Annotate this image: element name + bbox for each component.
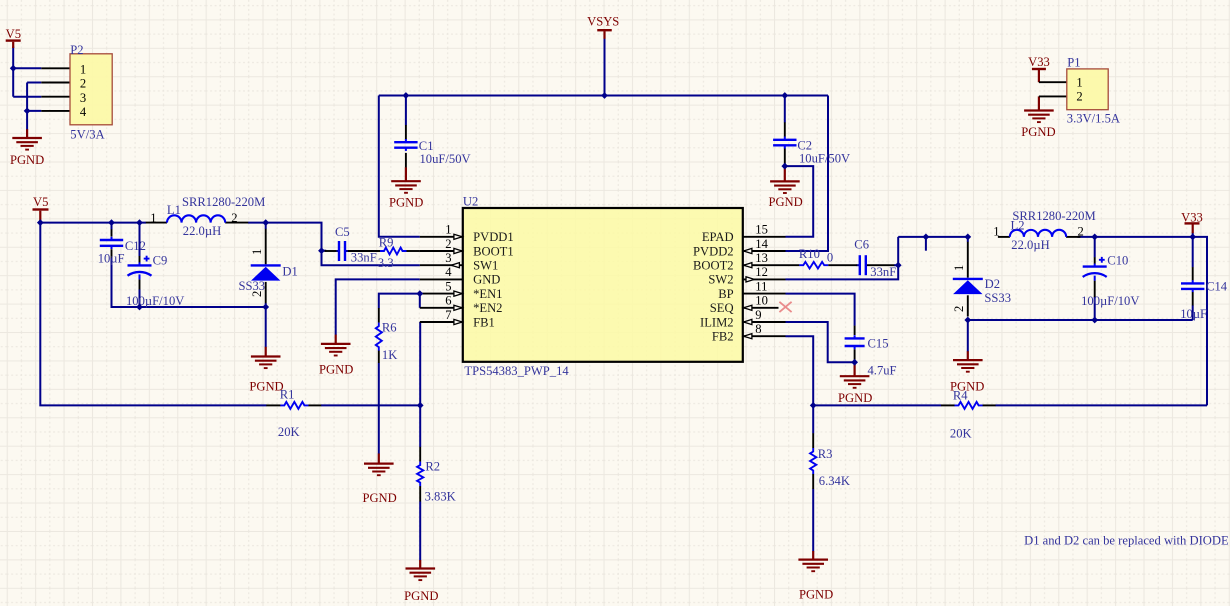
wire BP to C15 (786, 294, 855, 363)
svg-text:BP: BP (718, 287, 733, 301)
svg-text:4: 4 (80, 105, 87, 119)
svg-text:C5: C5 (335, 225, 350, 239)
wire FB1 feedback node (419, 322, 421, 560)
svg-text:10uF/50V: 10uF/50V (420, 152, 471, 166)
svg-text:P1: P1 (1067, 55, 1080, 69)
capacitor C2 (773, 137, 850, 166)
svg-text:C6: C6 (854, 238, 869, 252)
ground PGND below C15 (838, 376, 872, 405)
wire BOOT2 R10 C6 (857, 264, 899, 266)
ground PGND below R2 (404, 569, 438, 604)
ground PGND below D2 (950, 360, 984, 394)
svg-text:D1: D1 (282, 265, 297, 279)
wire FB2 node through R4 to V33, R3 down (813, 405, 1207, 551)
svg-text:SRR1280-220M: SRR1280-220M (182, 195, 265, 209)
wire P2 pins 1 3 to V5 (13, 47, 41, 97)
capacitor C15 (845, 335, 897, 377)
ground PGND below P2 (10, 138, 44, 167)
wire right output bottom rail (968, 297, 1193, 352)
power port V33 at right rail (1181, 210, 1203, 224)
resistor R9 (378, 235, 407, 270)
svg-text:33nF: 33nF (870, 265, 896, 279)
capacitor C12 (98, 237, 146, 265)
pin direction arrows U2 (451, 234, 754, 339)
svg-text:C10: C10 (1107, 254, 1128, 268)
svg-text:V33: V33 (1028, 55, 1050, 69)
svg-text:FB1: FB1 (473, 315, 495, 329)
svg-text:PGND: PGND (362, 491, 396, 505)
svg-text:PGND: PGND (319, 363, 353, 377)
svg-text:5V/3A: 5V/3A (70, 127, 104, 141)
resistor R10 (799, 247, 833, 268)
svg-text:11: 11 (755, 279, 767, 293)
svg-text:SS33: SS33 (984, 291, 1011, 305)
inductor L2 (993, 209, 1095, 252)
svg-text:20K: 20K (278, 425, 300, 439)
svg-text:10uF/50V: 10uF/50V (799, 152, 850, 166)
svg-text:13: 13 (755, 251, 768, 265)
svg-text:0: 0 (827, 251, 833, 265)
ground PGND below R3 (798, 560, 833, 602)
svg-text:PVDD1: PVDD1 (473, 230, 514, 244)
wire VSYS top bus (379, 38, 828, 251)
svg-text:3: 3 (445, 251, 451, 265)
svg-text:5: 5 (445, 279, 451, 293)
svg-text:6.34K: 6.34K (819, 474, 850, 488)
no-connect X on SEQ pin 10 (779, 302, 791, 312)
svg-text:SRR1280-220M: SRR1280-220M (1012, 209, 1095, 223)
svg-text:TPS54383_PWP_14: TPS54383_PWP_14 (464, 364, 569, 378)
svg-text:C14: C14 (1206, 280, 1228, 294)
wire V5 output node L1 row (40, 220, 321, 256)
capacitor C10 polarized (1081, 254, 1139, 309)
resistor R1 (278, 388, 308, 439)
svg-text:PGND: PGND (950, 380, 984, 394)
svg-text:2: 2 (952, 306, 966, 312)
capacitor C1 (394, 139, 470, 166)
svg-text:SW1: SW1 (473, 259, 498, 273)
svg-text:33nF: 33nF (351, 251, 377, 265)
svg-text:3: 3 (80, 91, 86, 105)
svg-text:1: 1 (445, 223, 451, 237)
ground PGND below C2 (768, 181, 802, 209)
IC U2 TPS54383_PWP_14 (445, 194, 768, 378)
svg-text:PGND: PGND (10, 153, 44, 167)
svg-text:PGND: PGND (1021, 125, 1055, 139)
power port V5 at P2 (6, 27, 21, 41)
svg-text:100µF/10V: 100µF/10V (126, 294, 184, 308)
svg-text:PGND: PGND (768, 195, 802, 209)
svg-text:15: 15 (755, 223, 768, 237)
wire V33 output node L2 row (1077, 233, 1207, 406)
svg-text:4.7uF: 4.7uF (868, 364, 897, 378)
svg-text:22.0µH: 22.0µH (183, 224, 221, 238)
svg-text:2: 2 (231, 211, 237, 225)
svg-text:6: 6 (445, 294, 451, 308)
power port VSYS (587, 14, 619, 30)
inductor L1 (150, 195, 265, 238)
wire P2 pins 2 4 to ground (27, 83, 41, 131)
svg-text:R3: R3 (818, 447, 833, 461)
svg-text:7: 7 (445, 308, 451, 322)
resistor R4 (950, 389, 983, 441)
svg-text:EPAD: EPAD (702, 230, 734, 244)
svg-text:2: 2 (80, 77, 86, 91)
svg-text:*EN2: *EN2 (473, 301, 502, 315)
wire SW1 node to pin 3 (322, 251, 420, 266)
svg-text:BOOT2: BOOT2 (693, 259, 734, 273)
svg-text:P2: P2 (70, 43, 83, 57)
power port V33 at P1 (1028, 55, 1050, 69)
svg-text:R10: R10 (799, 247, 820, 261)
svg-text:4: 4 (445, 265, 452, 279)
svg-text:3.3V/1.5A: 3.3V/1.5A (1067, 112, 1120, 126)
svg-text:10µF: 10µF (98, 251, 125, 265)
resistor R2 (417, 460, 456, 504)
resistor R6 (376, 320, 398, 362)
svg-text:2: 2 (1076, 90, 1082, 104)
svg-text:C1: C1 (419, 139, 434, 153)
svg-text:BOOT1: BOOT1 (473, 244, 514, 258)
svg-text:22.0µH: 22.0µH (1011, 238, 1049, 252)
wire GND pin 4 to ground (336, 279, 420, 335)
svg-text:PVDD2: PVDD2 (693, 244, 734, 258)
svg-text:GND: GND (473, 273, 500, 287)
svg-text:L1: L1 (167, 203, 181, 217)
svg-text:R6: R6 (382, 320, 397, 334)
wire D2 top (967, 237, 969, 242)
wire FB2 to feedback node (786, 336, 814, 405)
svg-text:R2: R2 (425, 460, 440, 474)
svg-text:3.83K: 3.83K (425, 490, 456, 504)
ground PGND below R6 (362, 464, 396, 506)
svg-text:20K: 20K (950, 427, 972, 441)
svg-text:*EN1: *EN1 (473, 287, 502, 301)
svg-text:C12: C12 (125, 239, 146, 253)
diode D2 SS33 (952, 265, 1011, 312)
capacitor C9 polarized (126, 254, 184, 308)
svg-text:PGND: PGND (404, 589, 438, 603)
capacitor C14 (1180, 280, 1228, 321)
svg-text:1K: 1K (382, 348, 397, 362)
ground PGND below C1 (389, 181, 423, 209)
svg-text:C2: C2 (797, 139, 812, 153)
capacitor C5 (335, 225, 377, 265)
svg-text:9: 9 (755, 308, 761, 322)
wire EN1 EN2 tie to R6 (379, 294, 420, 454)
svg-text:10µF: 10µF (1180, 307, 1207, 321)
svg-text:PGND: PGND (838, 391, 872, 405)
svg-text:10: 10 (755, 294, 768, 308)
svg-text:C15: C15 (868, 337, 889, 351)
svg-text:1: 1 (80, 62, 86, 76)
svg-text:U2: U2 (463, 194, 478, 208)
svg-text:VSYS: VSYS (587, 14, 619, 28)
svg-text:D1 and D2 can be replaced with: D1 and D2 can be replaced with DIODE (1024, 534, 1229, 548)
svg-text:PGND: PGND (389, 196, 423, 210)
svg-text:SW2: SW2 (708, 273, 733, 287)
wire stub on SW2 node (925, 237, 927, 251)
svg-text:3.3: 3.3 (378, 256, 394, 270)
svg-text:100µF/10V: 100µF/10V (1081, 294, 1139, 308)
svg-text:C9: C9 (153, 254, 168, 268)
diode D1 SS33 (239, 249, 298, 297)
svg-text:FB2: FB2 (712, 330, 734, 344)
svg-text:V5: V5 (6, 27, 21, 41)
svg-text:1: 1 (993, 225, 999, 239)
svg-text:1: 1 (150, 211, 156, 225)
component pin segments (black) (41, 68, 1192, 501)
wire C5 R9 bootstrap to BOOT1 (336, 250, 348, 252)
wire EPAD to C2 ground node (785, 163, 813, 237)
wire left output caps bottom rail (112, 258, 266, 347)
ground PGND below P1 (1021, 111, 1055, 140)
wire D1 top (265, 223, 267, 229)
svg-text:12: 12 (755, 265, 768, 279)
svg-text:PGND: PGND (249, 380, 283, 394)
svg-text:D2: D2 (985, 277, 1000, 291)
connector P2 (70, 43, 112, 141)
connector P1 (1067, 55, 1120, 125)
svg-text:8: 8 (755, 322, 761, 336)
svg-text:V5: V5 (33, 195, 48, 209)
ground PGND below D1 (249, 357, 283, 394)
svg-text:1: 1 (250, 249, 264, 255)
svg-text:ILIM2: ILIM2 (700, 315, 734, 329)
svg-text:2: 2 (1078, 225, 1084, 239)
wire ILIM2 to C15 ground node (786, 322, 855, 362)
resistor R3 (810, 447, 850, 488)
svg-text:14: 14 (755, 237, 768, 251)
svg-text:R9: R9 (379, 235, 394, 249)
svg-text:2: 2 (250, 291, 264, 297)
power port V5 at left rail (33, 195, 49, 210)
ground PGND U2 GND pin (319, 344, 353, 377)
svg-text:1: 1 (952, 265, 966, 271)
svg-text:PGND: PGND (799, 587, 833, 601)
wire SW2 node (786, 237, 968, 280)
svg-text:1: 1 (1076, 76, 1082, 90)
svg-text:V33: V33 (1181, 210, 1203, 224)
svg-text:SEQ: SEQ (710, 301, 734, 315)
wire V5 rail down left edge through R1 (40, 223, 420, 406)
capacitor C6 (854, 238, 896, 279)
svg-text:2: 2 (445, 237, 451, 251)
